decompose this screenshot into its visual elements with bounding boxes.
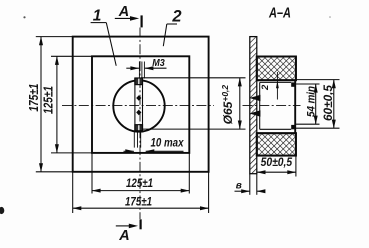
svg-text:54 min: 54 min	[306, 86, 318, 117]
label 125+-1 vertical	[42, 86, 56, 114]
front view: inner square recess 125x125	[92, 56, 189, 153]
extension line inner square bottom-left	[51, 152, 92, 154]
section: case rear wall	[294, 80, 296, 134]
dimension arrow panel thickness right	[257, 190, 265, 192]
clamp bar right side	[142, 78, 144, 131]
section: rear rib lower	[291, 125, 295, 129]
section: clamp screw tip upper	[250, 95, 261, 101]
svg-text:1: 1	[93, 8, 102, 25]
clamp bar lower end block	[135, 125, 143, 131]
section: case cavity top inner line	[260, 81, 292, 83]
extension line inner square bottom-right corner down	[188, 153, 190, 194]
label 175+-1 vertical	[27, 84, 41, 112]
svg-text:50±0,5: 50±0,5	[261, 155, 293, 169]
svg-text:A–A: A–A	[268, 5, 291, 21]
callout 1 leader	[106, 23, 116, 66]
clamp screw head lower	[136, 110, 141, 116]
extension line panel rear down	[256, 174, 258, 195]
extension line 60+-0,5 bottom	[296, 127, 340, 129]
clamp bar left side	[134, 78, 136, 131]
extension line 60+-0,5 top	[296, 79, 340, 81]
dimension line 60+-0,5	[333, 80, 335, 129]
svg-text:175±1: 175±1	[125, 194, 152, 208]
clamp bar upper end block	[135, 78, 143, 85]
svg-text:A: A	[118, 4, 129, 20]
callout 2 leader	[163, 24, 167, 46]
extension line 54min top	[296, 83, 320, 85]
callout 2 underline	[167, 23, 177, 25]
section: rear rib upper	[291, 82, 295, 86]
callout 1 underline	[91, 22, 107, 24]
svg-text:10 max: 10 max	[151, 135, 185, 149]
svg-text:60±0,5: 60±0,5	[321, 85, 335, 121]
extension line outer square bottom-right corner down	[208, 172, 210, 213]
label 60+-0,5	[321, 85, 335, 121]
svg-text:2: 2	[171, 8, 181, 26]
extension line outer square bottom-left corner down	[72, 172, 74, 213]
scan blob left edge	[0, 207, 4, 214]
dimension arrow 10max right with shelf	[146, 150, 184, 152]
svg-text:125±1: 125±1	[126, 176, 153, 190]
M3 screw shank below hole	[133, 131, 135, 148]
section: case cavity bottom inner line	[260, 128, 292, 130]
front view: outer square panel plate 175x175	[73, 37, 209, 172]
section: panel wall hatched	[250, 37, 257, 174]
dimension arrow panel thickness left	[235, 190, 250, 192]
label 54 min	[306, 86, 318, 117]
extension line hole bottom tangent	[142, 128, 246, 130]
extension line panel front down	[249, 174, 251, 195]
section: clamp screw tip lower	[250, 110, 261, 116]
scan speck top-right	[329, 16, 331, 18]
svg-text:M3: M3	[152, 58, 165, 69]
label 2 wall thickness	[260, 84, 271, 91]
dimension arrow M3 right with shelf	[145, 67, 167, 69]
leader for wall thickness 2	[276, 72, 278, 100]
label D65 +0,2	[220, 85, 235, 125]
extension line inner square top-left	[51, 55, 92, 57]
section centerline	[243, 105, 301, 107]
dimension line 125+-1 vertical	[56, 56, 58, 153]
dimension line 175+-1 vertical	[40, 37, 42, 172]
extension line 54min bottom	[296, 123, 320, 125]
section: case bottom flange cross-hatched	[257, 133, 296, 155]
svg-text:2: 2	[260, 84, 271, 91]
svg-text:175±1: 175±1	[27, 84, 41, 112]
dimension arrow 10max left	[124, 150, 134, 152]
dimension arrow M3 left	[126, 67, 139, 69]
dimension line 175+-1 horizontal	[73, 207, 209, 209]
extension line inner square bottom-left corner down	[91, 153, 93, 194]
dimension line D65+0,2	[239, 78, 241, 129]
section plane tick bottom	[140, 219, 142, 229]
extension line case rear down	[295, 156, 297, 177]
front view: round hole D65	[113, 80, 164, 131]
svg-text:A: A	[118, 228, 129, 244]
M3 screw shank above hole	[138, 62, 140, 79]
horizontal centerline of hole	[62, 105, 214, 107]
extension line hole top tangent	[141, 77, 246, 79]
dimension line 125+-1 horizontal	[92, 190, 189, 192]
section: case cavity front inner line	[259, 82, 261, 129]
svg-text:125±1: 125±1	[42, 86, 56, 114]
dimension line 50+-0,5	[257, 171, 296, 173]
section arrow A top head	[130, 16, 139, 21]
section arrow A bottom shaft	[116, 225, 131, 227]
section plane tick top	[141, 15, 143, 27]
section arrow A top shaft	[115, 17, 132, 19]
extension line outer square bottom-left	[36, 171, 73, 173]
extension line outer square top-left	[36, 36, 73, 38]
svg-text:в: в	[236, 180, 242, 191]
vertical centerline / section plane A-A	[139, 28, 141, 220]
clamp screw head upper	[136, 95, 141, 101]
dimension line 54min	[315, 84, 317, 124]
section: case top flange cross-hatched	[257, 57, 296, 81]
scan speck top-left	[23, 16, 25, 18]
section arrow A bottom head	[129, 224, 138, 229]
